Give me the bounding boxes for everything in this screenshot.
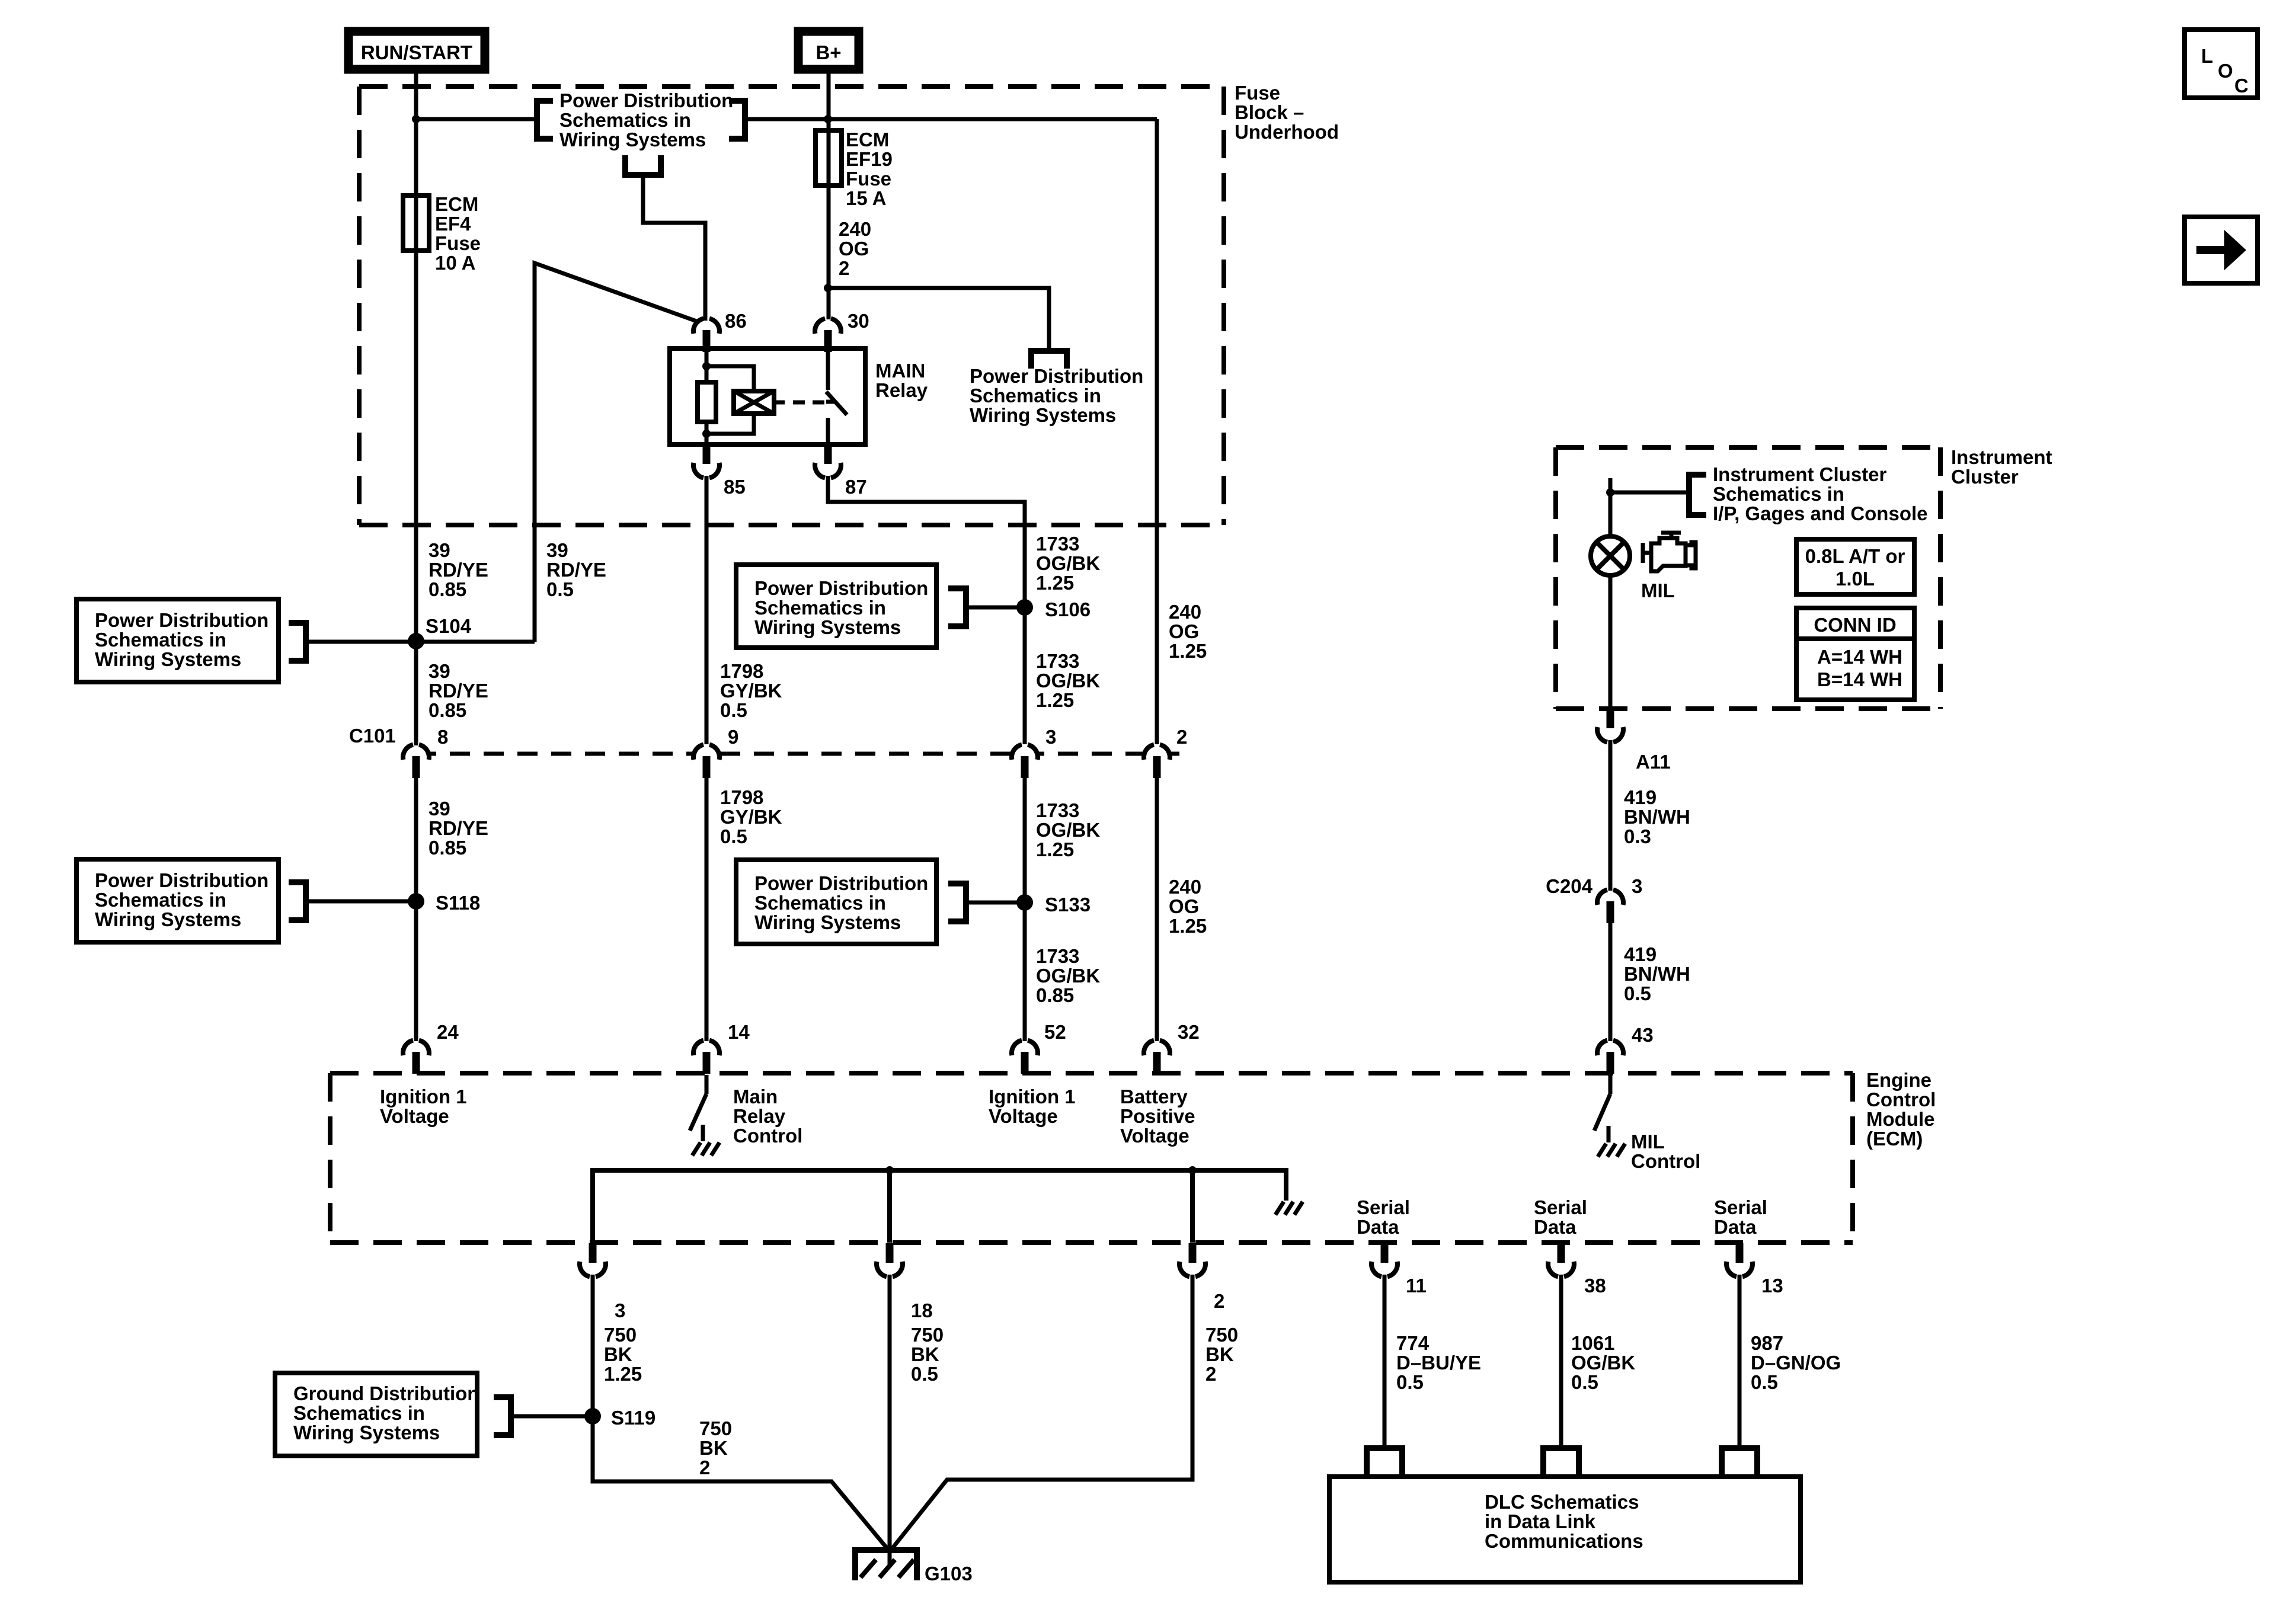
svg-text:0.85: 0.85 (1036, 984, 1074, 1006)
svg-text:Wiring Systems: Wiring Systems (95, 908, 241, 930)
svg-text:2: 2 (1176, 726, 1187, 748)
switch main relay control driver (705, 1075, 709, 1094)
box CONN ID (1796, 608, 1914, 700)
svg-text:1798: 1798 (720, 786, 763, 808)
svg-text:DLC Schematics: DLC Schematics (1485, 1491, 1639, 1513)
wire bracket to S119 (511, 1414, 593, 1419)
svg-text:Schematics in: Schematics in (293, 1402, 425, 1424)
splice S104 (408, 633, 424, 649)
svg-text:1798: 1798 (720, 660, 763, 682)
pin 3 (ECM bottom) (580, 1243, 606, 1276)
svg-text:Block –: Block – (1235, 101, 1304, 123)
pin 2 (ECM bottom) (1179, 1243, 1205, 1276)
svg-text:39: 39 (428, 798, 450, 820)
wire tap to cluster reference bracket (1610, 491, 1689, 495)
svg-text:1.25: 1.25 (1169, 915, 1207, 937)
svg-text:1.25: 1.25 (1036, 689, 1074, 711)
reference box Ground Distribution (275, 1373, 477, 1456)
wire 419 BN/WH 0.5 (1609, 923, 1613, 1041)
svg-text:240: 240 (839, 218, 871, 240)
relay switch blade (826, 350, 830, 390)
svg-text:Relay: Relay (733, 1105, 786, 1127)
svg-text:1733: 1733 (1036, 650, 1079, 672)
fuse EF19 (816, 130, 842, 185)
svg-text:3: 3 (615, 1299, 625, 1321)
svg-text:G103: G103 (925, 1563, 973, 1585)
svg-text:OG/BK: OG/BK (1571, 1352, 1635, 1374)
svg-text:240: 240 (1169, 601, 1201, 623)
svg-text:Schematics in: Schematics in (1713, 483, 1844, 505)
wire bus down to pin 18 (887, 1170, 892, 1243)
svg-text:30: 30 (848, 310, 869, 332)
svg-text:Schematics in: Schematics in (95, 629, 226, 651)
reference box Power Distribution (middle, S106) (736, 565, 936, 648)
svg-text:Ignition 1: Ignition 1 (989, 1086, 1076, 1108)
relay coil (box with X) (734, 391, 774, 414)
svg-text:Wiring Systems: Wiring Systems (754, 911, 901, 933)
svg-text:Instrument: Instrument (1951, 446, 2052, 468)
svg-text:Voltage: Voltage (989, 1105, 1058, 1127)
wire S104 branch 39 RD/YE 0.5 up and diagonal to pin 86 (535, 263, 706, 642)
svg-text:A=14 WH: A=14 WH (1817, 646, 1902, 668)
off-page bracket below top reference (open top) (625, 155, 661, 175)
svg-text:Module: Module (1866, 1108, 1934, 1130)
svg-text:BK: BK (911, 1343, 939, 1365)
pin 24 (403, 1041, 429, 1074)
pin 87 (815, 444, 841, 478)
svg-text:0.5: 0.5 (911, 1363, 938, 1385)
wire 750 BK 0.5 from pin 18 to G103 (888, 1275, 892, 1564)
reference box Power Distribution (middle, S133) (736, 860, 936, 944)
svg-text:1733: 1733 (1036, 533, 1079, 555)
svg-text:D–GN/OG: D–GN/OG (1751, 1352, 1841, 1374)
bracket of Ground Distribution reference (494, 1397, 511, 1435)
svg-text:Main: Main (733, 1086, 778, 1108)
svg-text:9: 9 (728, 726, 738, 748)
lamp MIL indicator (1591, 536, 1630, 575)
svg-text:S133: S133 (1045, 894, 1091, 916)
bracket of left reference box (S118) (289, 882, 306, 920)
svg-text:Wiring Systems: Wiring Systems (95, 648, 241, 670)
svg-text:in Data Link: in Data Link (1485, 1510, 1596, 1532)
symbol LOC box (top right) (2185, 30, 2257, 98)
svg-text:0.5: 0.5 (1624, 982, 1651, 1004)
pin 14 (693, 1041, 720, 1074)
relay armature dashed link (774, 401, 785, 405)
svg-text:43: 43 (1632, 1024, 1654, 1046)
svg-text:RD/YE: RD/YE (428, 817, 488, 839)
pin 86 (693, 319, 720, 352)
svg-text:Instrument Cluster: Instrument Cluster (1713, 463, 1887, 485)
svg-text:RD/YE: RD/YE (428, 559, 488, 581)
svg-text:14: 14 (728, 1021, 750, 1043)
svg-text:Cluster: Cluster (1951, 466, 2019, 488)
bracket of S106 reference (948, 588, 966, 626)
wire from bracket down and over to relay pin 86 (643, 175, 705, 321)
bracket of left reference box (S104) (289, 623, 306, 661)
svg-text:3: 3 (1632, 875, 1642, 897)
svg-text:0.5: 0.5 (1396, 1371, 1424, 1393)
pin 18 (ECM bottom) (877, 1243, 903, 1276)
svg-text:85: 85 (724, 476, 746, 498)
svg-text:Data: Data (1534, 1216, 1576, 1238)
svg-text:Ground Distribution: Ground Distribution (293, 1382, 479, 1404)
svg-text:L: L (2201, 45, 2213, 67)
svg-text:0.8L A/T or: 0.8L A/T or (1805, 545, 1905, 567)
reference box Power Distribution (left, S104) (76, 599, 279, 682)
node junction bus to pin 18 (885, 1166, 894, 1174)
svg-text:ECM: ECM (435, 193, 478, 215)
svg-text:MIL: MIL (1641, 580, 1675, 601)
svg-text:Control: Control (1631, 1150, 1700, 1172)
svg-text:2: 2 (839, 257, 849, 279)
svg-text:Schematics in: Schematics in (559, 109, 691, 131)
svg-text:0.5: 0.5 (1751, 1371, 1778, 1393)
svg-text:OG/BK: OG/BK (1036, 552, 1100, 574)
wire 240 OG from tap down to C101 pin 2 (1155, 119, 1159, 744)
wire junction to left bracket of reference (416, 117, 537, 121)
pin 8 of C101 (403, 745, 429, 778)
svg-text:750: 750 (911, 1324, 944, 1346)
svg-text:RD/YE: RD/YE (546, 559, 606, 581)
wire serial data 774 down to DLC (1383, 1275, 1387, 1449)
wire junction to off-page reference (down-bracket) (829, 288, 1049, 351)
wire B+ down through EF19 (827, 73, 831, 319)
svg-text:D–BU/YE: D–BU/YE (1396, 1352, 1481, 1374)
svg-text:750: 750 (604, 1324, 637, 1346)
pin 30 (815, 319, 841, 352)
wire bracket to S104 (306, 640, 535, 644)
svg-text:3: 3 (1045, 726, 1056, 748)
svg-text:1733: 1733 (1036, 945, 1079, 967)
pin 3 of C101 (1012, 745, 1038, 778)
svg-text:0.85: 0.85 (428, 837, 466, 859)
svg-text:S106: S106 (1045, 598, 1091, 620)
svg-text:419: 419 (1624, 943, 1657, 965)
svg-text:Wiring Systems: Wiring Systems (559, 129, 706, 151)
svg-text:S104: S104 (426, 615, 472, 637)
svg-text:BK: BK (1205, 1343, 1234, 1365)
svg-text:52: 52 (1044, 1021, 1066, 1043)
svg-text:EF4: EF4 (435, 213, 471, 235)
wire 1733 OG/BK from C101-3 through S133 to ECM pin 52 (1023, 777, 1027, 1041)
svg-text:39: 39 (546, 539, 568, 561)
svg-text:BN/WH: BN/WH (1624, 806, 1690, 828)
reference box Power Distribution (left, S118) (76, 859, 279, 942)
pin 32 (1144, 1041, 1170, 1074)
svg-text:OG/BK: OG/BK (1036, 819, 1100, 841)
wire 39 RD/YE 0.85 from C101-8 to ECM pin 24 (414, 777, 418, 1041)
node junction RUN/START branch (412, 115, 420, 123)
connector bracket to DLC (x=2935) (1722, 1448, 1757, 1477)
svg-text:11: 11 (1406, 1275, 1427, 1297)
svg-text:32: 32 (1178, 1021, 1200, 1043)
pin 38 (ECM bottom) (1548, 1243, 1574, 1276)
relay coil branch wires (705, 350, 709, 382)
symbol arrow box (page continuation) (2185, 217, 2257, 283)
icon check engine (1651, 538, 1686, 571)
svg-text:1733: 1733 (1036, 799, 1079, 821)
svg-text:B=14 WH: B=14 WH (1817, 668, 1902, 690)
splice S106 (1016, 599, 1033, 616)
svg-text:Voltage: Voltage (1120, 1125, 1189, 1147)
node RUN/START (ignition feed) (348, 31, 485, 69)
instrument cluster dashed box (1556, 445, 1940, 450)
node junction at B+ tap (824, 115, 832, 123)
svg-text:Power Distribution: Power Distribution (95, 609, 268, 631)
svg-text:Ignition 1: Ignition 1 (380, 1086, 467, 1108)
connector bracket to DLC (x=2634) (1543, 1448, 1579, 1477)
svg-text:GY/BK: GY/BK (720, 806, 782, 828)
connector bracket to DLC (x=2336) (1367, 1448, 1402, 1477)
svg-text:Data: Data (1714, 1216, 1757, 1238)
fuse EF4 (403, 196, 429, 251)
svg-text:38: 38 (1584, 1275, 1606, 1297)
svg-text:1.25: 1.25 (1036, 838, 1074, 860)
wire ECM internal ground bus (593, 1170, 1286, 1243)
svg-text:Positive: Positive (1120, 1105, 1195, 1127)
svg-text:Power Distribution: Power Distribution (970, 365, 1143, 387)
fuse block underhood dashed boundary (359, 84, 1224, 89)
switch MIL control driver (1609, 1075, 1613, 1094)
svg-text:Data: Data (1357, 1216, 1399, 1238)
svg-text:C101: C101 (349, 725, 396, 747)
svg-text:419: 419 (1624, 786, 1657, 808)
svg-text:750: 750 (699, 1417, 732, 1439)
ECM dashed box (330, 1071, 1853, 1076)
svg-text:Fuse: Fuse (435, 232, 481, 254)
svg-text:24: 24 (437, 1021, 459, 1043)
svg-text:Wiring Systems: Wiring Systems (970, 404, 1116, 426)
wire bracket to S118 (306, 900, 416, 904)
ground (internal, bus) (1275, 1202, 1284, 1215)
svg-text:OG: OG (839, 238, 869, 260)
splice S133 (1016, 894, 1033, 911)
svg-text:2: 2 (1214, 1290, 1224, 1312)
pin 13 (ECM bottom) (1726, 1243, 1753, 1276)
connector C101 dashed line (416, 752, 1179, 756)
pin 52 (1012, 1041, 1038, 1074)
resistor (relay coil resistance) (698, 382, 716, 422)
svg-text:C204: C204 (1546, 875, 1593, 897)
svg-text:18: 18 (911, 1299, 933, 1321)
svg-text:Engine: Engine (1866, 1069, 1932, 1091)
svg-text:13: 13 (1761, 1275, 1783, 1297)
pin 43 (1597, 1041, 1623, 1074)
ground (internal, relay control) (701, 1125, 705, 1141)
wire 240 OG from C101-2 to ECM pin 32 (1155, 777, 1159, 1041)
wire 1798 GY/BK 0.5 from pin 85 to C101 pin 9 (705, 476, 709, 744)
wire bus down to pin 2 (1190, 1170, 1195, 1243)
svg-text:0.5: 0.5 (1571, 1371, 1598, 1393)
off-page reference bracket (open bottom) (1031, 351, 1067, 369)
box DLC Schematics reference (1329, 1477, 1801, 1582)
svg-text:1.25: 1.25 (1169, 640, 1207, 662)
svg-text:Battery: Battery (1120, 1086, 1188, 1108)
svg-text:RUN/START: RUN/START (361, 41, 472, 63)
svg-text:774: 774 (1396, 1332, 1430, 1354)
pin 9 of C101 (693, 745, 720, 778)
wire 1733 OG/BK from pin 87 over and down to S106 / C101 pin 3 (828, 476, 1025, 744)
svg-text:Wiring Systems: Wiring Systems (293, 1422, 440, 1443)
svg-text:Power Distribution: Power Distribution (754, 577, 928, 599)
svg-text:Communications: Communications (1485, 1530, 1643, 1552)
svg-text:Serial: Serial (1357, 1196, 1410, 1218)
svg-text:Serial: Serial (1714, 1196, 1767, 1218)
wire RUN/START down to S104 (414, 73, 418, 745)
svg-text:Control: Control (733, 1125, 802, 1147)
svg-text:S119: S119 (611, 1407, 655, 1429)
svg-text:86: 86 (725, 310, 747, 332)
svg-text:15 A: 15 A (846, 187, 886, 209)
svg-text:A11: A11 (1636, 751, 1671, 773)
wire 419 BN/WH 0.3 (1609, 740, 1613, 891)
splice S118 (408, 893, 424, 910)
wire 750 BK 2 from pin 2 to G103 (891, 1275, 1192, 1550)
node B+ (battery feed) (798, 31, 859, 69)
relay MAIN Relay box (670, 348, 865, 444)
svg-text:ECM: ECM (846, 129, 889, 151)
svg-text:BN/WH: BN/WH (1624, 963, 1690, 985)
svg-text:2: 2 (699, 1457, 710, 1478)
ground (internal, MIL control) (1607, 1126, 1611, 1142)
svg-text:Serial: Serial (1534, 1196, 1587, 1218)
svg-text:Fuse: Fuse (846, 168, 891, 190)
svg-text:Voltage: Voltage (380, 1105, 449, 1127)
svg-text:CONN ID: CONN ID (1814, 614, 1896, 636)
svg-text:Relay: Relay (875, 379, 928, 401)
svg-text:O: O (2218, 60, 2233, 82)
wire cluster feed stub and tap (1609, 478, 1613, 537)
svg-text:BK: BK (699, 1437, 728, 1459)
svg-text:OG: OG (1169, 620, 1199, 642)
box 0.8L A/T or 1.0L (1796, 539, 1914, 594)
bracket of S133 reference (948, 884, 966, 921)
svg-text:87: 87 (845, 476, 867, 498)
svg-text:EF19: EF19 (846, 148, 893, 170)
svg-text:I/P, Gages and Console: I/P, Gages and Console (1713, 502, 1928, 524)
svg-text:C: C (2234, 75, 2249, 97)
wire serial data 1061 down to DLC (1559, 1275, 1563, 1449)
svg-text:Power Distribution: Power Distribution (95, 869, 268, 891)
svg-text:Schematics in: Schematics in (95, 889, 226, 911)
svg-text:10 A: 10 A (435, 252, 475, 274)
svg-text:39: 39 (428, 660, 450, 682)
wire lamp down to A11 (1609, 575, 1613, 710)
svg-text:Fuse: Fuse (1235, 82, 1280, 104)
svg-text:OG/BK: OG/BK (1036, 670, 1100, 692)
pin 11 (ECM bottom) (1371, 1243, 1398, 1276)
svg-text:B+: B+ (816, 41, 841, 63)
svg-text:Schematics in: Schematics in (970, 385, 1101, 406)
svg-text:MAIN: MAIN (875, 360, 925, 382)
svg-text:Power Distribution: Power Distribution (754, 872, 928, 894)
svg-text:1061: 1061 (1571, 1332, 1614, 1354)
wire 1798 GY/BK 0.5 from C101-9 to ECM pin 14 (705, 777, 709, 1041)
svg-text:2: 2 (1205, 1363, 1216, 1385)
svg-text:(ECM): (ECM) (1866, 1128, 1923, 1150)
svg-text:Control: Control (1866, 1089, 1936, 1110)
svg-text:750: 750 (1205, 1324, 1238, 1346)
svg-text:GY/BK: GY/BK (720, 680, 782, 702)
bracket for Instrument Cluster Schematics reference (1689, 475, 1706, 515)
svg-text:987: 987 (1751, 1332, 1783, 1354)
svg-text:1.25: 1.25 (1036, 572, 1074, 594)
svg-text:0.5: 0.5 (720, 825, 747, 847)
svg-text:0.85: 0.85 (428, 699, 466, 721)
svg-text:1.25: 1.25 (604, 1363, 642, 1385)
node junction below EF19 (824, 284, 832, 292)
off-page reference: Power Distribution Schematics (top) left bracket (537, 101, 553, 139)
svg-text:S118: S118 (436, 892, 480, 914)
node junction bus to pin 2 (1188, 1166, 1197, 1174)
svg-text:8: 8 (437, 726, 448, 748)
wire serial data 987 down to DLC (1738, 1275, 1742, 1449)
svg-text:OG: OG (1169, 895, 1199, 917)
pin 2 of C101 (1144, 745, 1170, 778)
svg-text:BK: BK (604, 1343, 632, 1365)
svg-text:Schematics in: Schematics in (754, 892, 886, 914)
pin 85 (693, 444, 720, 478)
svg-text:1.0L: 1.0L (1835, 568, 1875, 590)
pin A11 (1597, 709, 1623, 742)
svg-text:MIL: MIL (1631, 1131, 1665, 1153)
svg-text:0.3: 0.3 (1624, 825, 1651, 847)
wire 750 BK 1.25 from pin 3 to S119 and G103 (593, 1275, 890, 1551)
svg-text:Wiring Systems: Wiring Systems (754, 616, 901, 638)
svg-text:Underhood: Underhood (1235, 121, 1339, 143)
svg-text:0.5: 0.5 (720, 699, 747, 721)
svg-text:39: 39 (428, 539, 450, 561)
svg-text:0.5: 0.5 (546, 578, 574, 600)
svg-text:OG/BK: OG/BK (1036, 965, 1100, 987)
svg-text:RD/YE: RD/YE (428, 680, 488, 702)
wire bracket to S133 (966, 901, 1025, 905)
svg-text:Power Distribution: Power Distribution (559, 89, 733, 111)
ground G103 (855, 1550, 917, 1580)
wire bracket to S106 (966, 606, 1025, 610)
wire right bracket to B+ wire and on to 240 OG drop (745, 117, 1157, 121)
off-page reference right bracket (729, 101, 745, 139)
svg-text:Schematics in: Schematics in (754, 597, 886, 619)
splice S119 (584, 1408, 601, 1425)
svg-text:0.85: 0.85 (428, 578, 466, 600)
svg-text:240: 240 (1169, 876, 1201, 898)
